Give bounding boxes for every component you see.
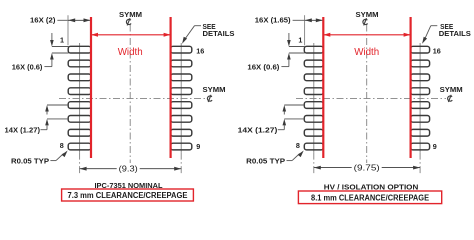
svg-text:SYMM: SYMM <box>356 10 379 19</box>
svg-text:9: 9 <box>196 142 200 151</box>
svg-text:16X (1.65): 16X (1.65) <box>255 16 291 25</box>
svg-text:DETAILS: DETAILS <box>439 29 471 38</box>
svg-text:Width: Width <box>354 47 379 58</box>
svg-text:14X (1.27): 14X (1.27) <box>5 126 41 135</box>
svg-text:Width: Width <box>118 47 143 58</box>
svg-text:16X (0.6): 16X (0.6) <box>12 62 43 71</box>
svg-text:R0.05 TYP: R0.05 TYP <box>11 156 49 165</box>
svg-text:9: 9 <box>433 142 437 151</box>
svg-text:14X (1.27): 14X (1.27) <box>238 126 278 135</box>
svg-text:1: 1 <box>298 36 302 45</box>
svg-text:8.1 mm CLEARANCE/CREEPAGE: 8.1 mm CLEARANCE/CREEPAGE <box>311 193 429 203</box>
svg-text:16: 16 <box>433 46 441 55</box>
svg-text:1: 1 <box>60 36 64 45</box>
svg-text:16X (0.6): 16X (0.6) <box>247 62 280 71</box>
svg-text:(9.3): (9.3) <box>119 165 138 174</box>
svg-text:SYMM: SYMM <box>203 85 226 94</box>
svg-text:DETAILS: DETAILS <box>203 29 235 38</box>
svg-text:16X (2): 16X (2) <box>30 16 56 25</box>
svg-text:SYMM: SYMM <box>119 10 142 19</box>
svg-text:(9.75): (9.75) <box>354 164 380 173</box>
svg-text:8: 8 <box>60 141 64 150</box>
svg-text:8: 8 <box>296 141 300 150</box>
svg-text:R0.05 TYP: R0.05 TYP <box>246 156 285 165</box>
svg-text:16: 16 <box>196 46 204 55</box>
svg-text:SYMM: SYMM <box>440 85 463 94</box>
svg-text:7.3 mm CLEARANCE/CREEPAGE: 7.3 mm CLEARANCE/CREEPAGE <box>68 190 188 200</box>
